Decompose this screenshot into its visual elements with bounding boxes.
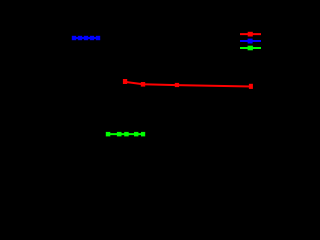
legend blue sample line bbox=[240, 40, 261, 42]
red series point 3 bbox=[175, 83, 179, 87]
green series point 2 bbox=[117, 132, 122, 137]
blue series line bbox=[74, 37, 98, 39]
green series line bbox=[108, 133, 143, 135]
green series point 1 bbox=[106, 132, 111, 137]
legend red sample line bbox=[240, 33, 261, 35]
legend green sample marker bbox=[248, 46, 253, 51]
red series point 2 bbox=[141, 82, 145, 87]
legend green sample line bbox=[240, 47, 261, 49]
blue series point 2 bbox=[78, 36, 82, 40]
green series point 3 bbox=[124, 132, 129, 137]
green series point 5 bbox=[141, 132, 145, 137]
red series end point bbox=[249, 84, 253, 89]
blue series point 4 bbox=[90, 36, 94, 40]
blue series point 3 bbox=[84, 36, 88, 40]
red series line bbox=[125, 82, 251, 87]
blue series point 5 bbox=[96, 36, 100, 40]
red series point 1 bbox=[123, 79, 127, 84]
blue series point 1 bbox=[72, 36, 76, 40]
legend red sample marker bbox=[248, 32, 253, 37]
green series point 4 bbox=[134, 132, 138, 137]
legend blue sample marker bbox=[248, 39, 253, 44]
